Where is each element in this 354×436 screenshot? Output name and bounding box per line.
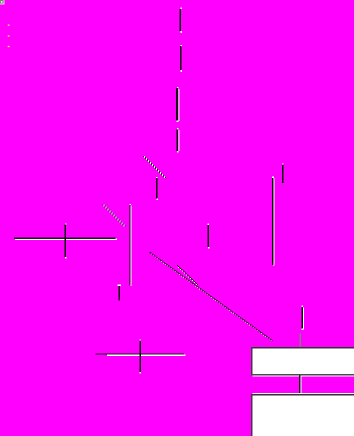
transistor Q1 emitter lead (long diagonal to box) (150, 252, 273, 341)
wire (upper diagonal stub) (143, 156, 166, 178)
box U2 (lower white block) (251, 393, 354, 436)
node cross 2 vertical wire (139, 339, 141, 373)
wire (short vertical under stub) (156, 177, 158, 200)
node dot 3 (orange) (8, 46, 10, 48)
node cross 2 horizontal wire (96, 354, 186, 356)
dashed bus segment 2 (180, 45, 182, 72)
dashed bus segment 3 (176, 87, 180, 122)
pin tick (short vertical, right of crystal) (282, 163, 284, 185)
node cross 1 vertical wire (65, 223, 67, 258)
transistor Q1 collector lead (diagonal) (102, 205, 125, 227)
node dot 2 (orange) (8, 35, 10, 37)
wire (vertical between boxes) (299, 375, 301, 394)
node cross 1 horizontal wire (14, 238, 117, 240)
dashed bus segment 1 (180, 8, 182, 33)
wire (vertical stub above box U1) (301, 306, 303, 331)
box U1 (upper white block) (251, 347, 354, 377)
wire (long vertical net, right side) (272, 176, 274, 265)
transistor Q1 emitter arrow barb (177, 265, 198, 285)
dashed bus segment 4 (176, 128, 179, 153)
node dot 1 (orange) (8, 24, 10, 26)
pin tick (vertical, above emitter) (207, 224, 209, 249)
corner icon (tiny gray square with white dot, top-left) (0, 0, 4, 4)
wire (short vertical below base bar) (117, 285, 121, 301)
wire (gray lead into box U1 top) (300, 334, 301, 348)
transistor Q1 base bar (129, 204, 131, 286)
